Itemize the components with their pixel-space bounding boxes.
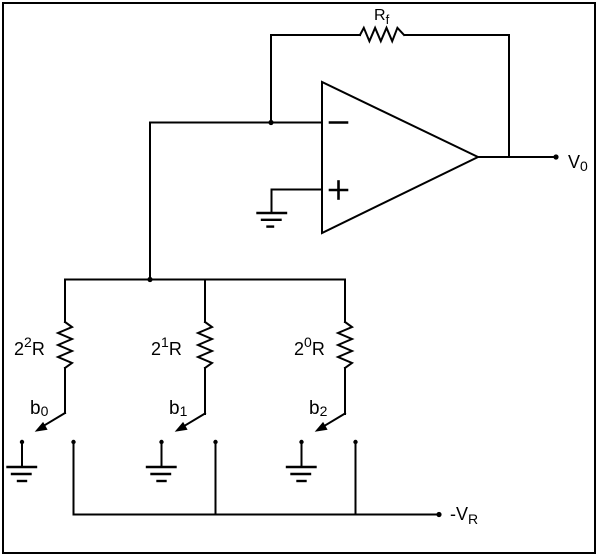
- wire: b0 ground stub: [21, 443, 23, 467]
- wire: branch 2 to switch: [204, 368, 206, 414]
- ground: b0: [8, 467, 37, 481]
- op-amp U1: [322, 82, 478, 233]
- switch b0 blade: [42, 413, 65, 427]
- switch b1 arrowhead: [175, 422, 188, 432]
- switch b1 ground contact: [159, 440, 163, 444]
- ground: b2: [287, 467, 316, 481]
- wire: inverting input: [150, 122, 322, 124]
- switch b2 reference contact: [353, 440, 357, 444]
- switch b2 blade: [322, 414, 345, 428]
- junction: feedback / inverting input: [268, 120, 273, 125]
- switch b1 blade: [182, 414, 205, 428]
- junction: summing bus: [147, 277, 152, 282]
- ground: op-amp + input: [258, 213, 287, 227]
- wire: branch 1 top: [64, 280, 66, 323]
- wire: summing bus: [65, 279, 345, 281]
- switch b2 arrowhead: [315, 422, 328, 432]
- resistor 2^1R: [198, 322, 212, 368]
- non-inverting input pin (+): [330, 182, 347, 199]
- wire: inverting input down to summing bus: [149, 123, 151, 280]
- wire: branch 3 to switch: [344, 368, 346, 414]
- wire: b0 contact to -VR bus: [73, 443, 75, 515]
- inverting input pin (&#8722;): [330, 121, 347, 124]
- switch b0 arrowhead: [35, 422, 48, 432]
- resistor 2^2R: [58, 322, 72, 368]
- wire: b1 contact to -VR bus: [215, 443, 217, 515]
- ground: b1: [147, 467, 176, 481]
- wire: b1 ground stub: [161, 443, 163, 467]
- resistor Rf: [360, 28, 404, 41]
- node -VR: [436, 512, 441, 517]
- resistor 2^0R: [338, 322, 352, 368]
- wire: branch 3 top: [344, 280, 346, 323]
- switch b0 ground contact: [20, 440, 24, 444]
- wire: b2 ground stub: [301, 443, 303, 467]
- switch b0 reference contact: [71, 440, 75, 444]
- wire: branch 1 to switch: [64, 368, 66, 413]
- wire: -VR bus: [74, 514, 440, 516]
- wire: non-inverting input to ground: [272, 190, 323, 214]
- wire: op-amp output: [478, 156, 556, 158]
- switch b1 reference contact: [213, 440, 217, 444]
- wire: inverting node up to feedback: [271, 35, 360, 123]
- switch b2 ground contact: [299, 440, 303, 444]
- node V0: [553, 154, 558, 159]
- wire: feedback top right segment: [405, 35, 509, 157]
- wire: b2 contact to -VR bus: [355, 443, 357, 515]
- wire: branch 2 top: [204, 280, 206, 323]
